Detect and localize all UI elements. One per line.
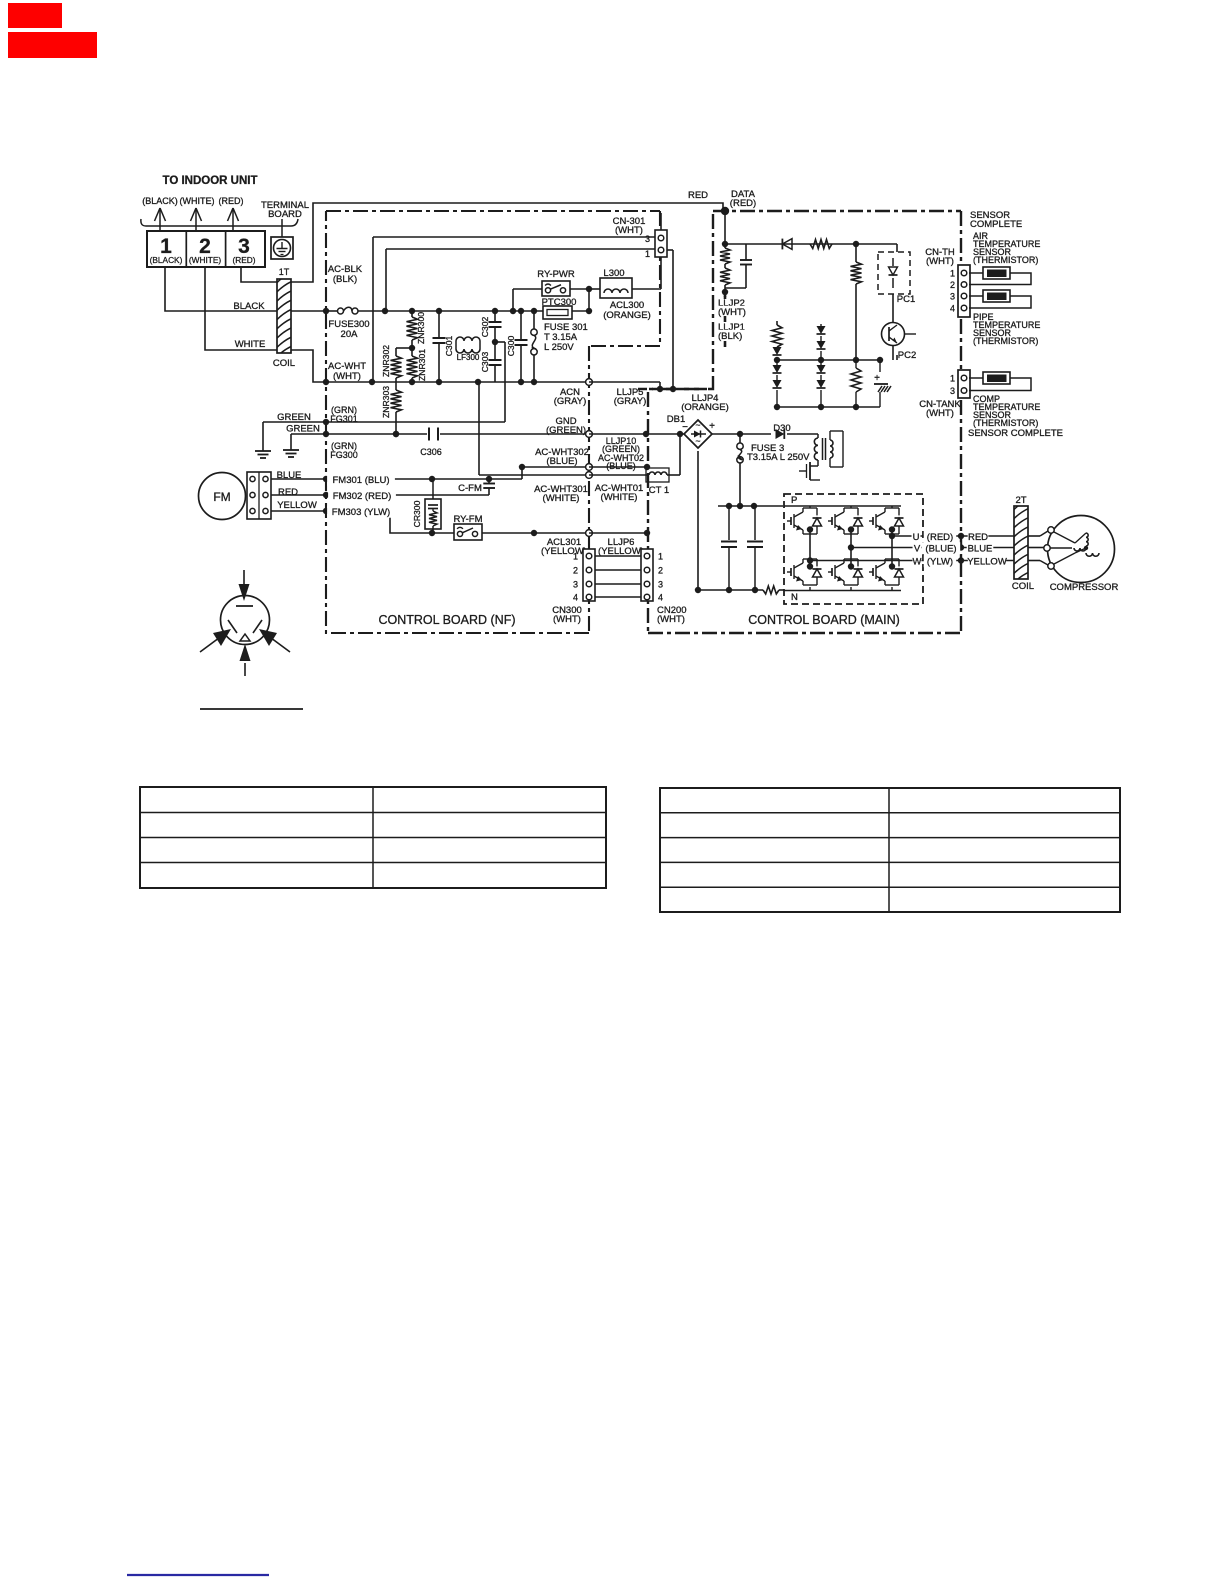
svg-text:ZNR303: ZNR303 bbox=[381, 386, 391, 418]
svg-text:1: 1 bbox=[950, 269, 955, 279]
svg-text:CT 1: CT 1 bbox=[649, 485, 669, 496]
svg-text:2: 2 bbox=[658, 566, 663, 576]
svg-text:3: 3 bbox=[950, 386, 955, 396]
svg-text:C303: C303 bbox=[480, 352, 490, 373]
svg-text:U: U bbox=[913, 532, 920, 543]
svg-text:1: 1 bbox=[573, 552, 578, 562]
svg-text:GREEN: GREEN bbox=[286, 424, 320, 435]
svg-text:3: 3 bbox=[658, 580, 663, 590]
svg-text:(RED): (RED) bbox=[730, 198, 756, 209]
svg-text:CONTROL BOARD (MAIN): CONTROL BOARD (MAIN) bbox=[748, 613, 900, 627]
svg-text:COMPRESSOR: COMPRESSOR bbox=[1050, 582, 1119, 593]
svg-text:TO INDOOR UNIT: TO INDOOR UNIT bbox=[163, 175, 258, 187]
svg-text:FM303 (YLW): FM303 (YLW) bbox=[332, 507, 390, 518]
svg-text:~: ~ bbox=[696, 436, 701, 446]
svg-text:FG301: FG301 bbox=[330, 414, 358, 424]
svg-text:(BLUE): (BLUE) bbox=[546, 456, 577, 467]
svg-text:4: 4 bbox=[573, 593, 578, 603]
svg-text:RY-PWR: RY-PWR bbox=[537, 269, 575, 280]
svg-text:COIL: COIL bbox=[273, 358, 295, 369]
svg-text:(GRAY): (GRAY) bbox=[554, 396, 587, 407]
svg-text:CR300: CR300 bbox=[412, 500, 422, 527]
svg-text:FM302 (RED): FM302 (RED) bbox=[333, 491, 392, 502]
svg-text:(ORANGE): (ORANGE) bbox=[681, 402, 729, 413]
svg-text:(WHT): (WHT) bbox=[718, 307, 746, 318]
svg-text:(BLUE): (BLUE) bbox=[606, 461, 636, 471]
svg-text:PC1: PC1 bbox=[897, 294, 915, 305]
svg-text:4: 4 bbox=[950, 304, 955, 314]
svg-text:1: 1 bbox=[950, 374, 955, 384]
svg-text:(BLACK): (BLACK) bbox=[142, 196, 178, 206]
svg-text:C-FM: C-FM bbox=[458, 483, 482, 494]
svg-text:(WHT): (WHT) bbox=[657, 614, 685, 625]
svg-text:(BLK): (BLK) bbox=[718, 331, 742, 342]
svg-text:YELLOW: YELLOW bbox=[967, 557, 1007, 568]
svg-text:C302: C302 bbox=[480, 317, 490, 338]
svg-text:(BLUE): (BLUE) bbox=[925, 544, 956, 555]
svg-text:RED: RED bbox=[688, 190, 708, 201]
svg-text:RED: RED bbox=[278, 487, 298, 498]
svg-text:LF300: LF300 bbox=[457, 353, 480, 362]
svg-text:(YELLOW): (YELLOW) bbox=[541, 546, 587, 557]
svg-text:CONTROL BOARD (NF): CONTROL BOARD (NF) bbox=[378, 613, 515, 627]
svg-text:FM301 (BLU): FM301 (BLU) bbox=[332, 475, 389, 486]
svg-text:(GREEN): (GREEN) bbox=[546, 425, 586, 436]
svg-text:BLACK: BLACK bbox=[233, 301, 265, 312]
svg-text:(WHITE): (WHITE) bbox=[189, 255, 221, 265]
svg-text:ZNR301: ZNR301 bbox=[417, 349, 427, 381]
svg-text:+: + bbox=[709, 421, 715, 432]
svg-text:SENSOR COMPLETE: SENSOR COMPLETE bbox=[968, 428, 1063, 439]
svg-text:FG300: FG300 bbox=[330, 450, 358, 460]
svg-text:(YLW): (YLW) bbox=[927, 557, 953, 568]
svg-text:P: P bbox=[791, 495, 797, 506]
svg-text:(RED): (RED) bbox=[232, 255, 255, 265]
svg-text:(WHITE): (WHITE) bbox=[601, 492, 638, 503]
svg-text:2T: 2T bbox=[1015, 495, 1026, 506]
svg-text:1: 1 bbox=[645, 249, 650, 259]
svg-text:(BLK): (BLK) bbox=[333, 274, 357, 285]
svg-text:RED: RED bbox=[968, 532, 988, 543]
svg-text:(WHT): (WHT) bbox=[615, 225, 643, 236]
svg-text:BLUE: BLUE bbox=[968, 544, 993, 555]
svg-text:1T: 1T bbox=[279, 267, 290, 277]
svg-text:N: N bbox=[791, 592, 798, 603]
svg-text:(THERMISTOR): (THERMISTOR) bbox=[973, 255, 1038, 265]
svg-text:W: W bbox=[913, 557, 922, 568]
svg-text:(GRAY): (GRAY) bbox=[614, 396, 647, 407]
svg-text:3: 3 bbox=[645, 234, 650, 244]
svg-text:YELLOW: YELLOW bbox=[277, 500, 317, 511]
svg-text:COMPLETE: COMPLETE bbox=[970, 219, 1022, 230]
svg-text:ZNR302: ZNR302 bbox=[381, 345, 391, 377]
svg-text:(WHT): (WHT) bbox=[926, 408, 954, 419]
svg-text:(THERMISTOR): (THERMISTOR) bbox=[973, 418, 1038, 428]
svg-text:L 250V: L 250V bbox=[544, 342, 574, 353]
svg-text:3: 3 bbox=[573, 580, 578, 590]
svg-text:(WHT): (WHT) bbox=[553, 614, 581, 625]
svg-text:(THERMISTOR): (THERMISTOR) bbox=[973, 336, 1038, 346]
svg-text:2: 2 bbox=[950, 280, 955, 290]
svg-text:C306: C306 bbox=[420, 447, 442, 457]
svg-text:(BLACK): (BLACK) bbox=[150, 255, 183, 265]
svg-text:(WHITE): (WHITE) bbox=[543, 493, 580, 504]
svg-text:+: + bbox=[874, 373, 880, 384]
svg-text:(WHITE): (WHITE) bbox=[180, 196, 215, 206]
svg-text:C300: C300 bbox=[506, 336, 516, 357]
svg-text:T3.15A L 250V: T3.15A L 250V bbox=[747, 452, 810, 463]
svg-text:(ORANGE): (ORANGE) bbox=[603, 310, 651, 321]
svg-text:(RED): (RED) bbox=[927, 532, 953, 543]
svg-text:FM: FM bbox=[213, 490, 230, 504]
svg-text:PC2: PC2 bbox=[898, 350, 916, 361]
svg-text:C301: C301 bbox=[444, 336, 454, 357]
svg-text:V: V bbox=[914, 544, 921, 555]
svg-text:ZNR300: ZNR300 bbox=[416, 312, 426, 344]
svg-text:(RED): (RED) bbox=[219, 196, 244, 206]
svg-text:4: 4 bbox=[658, 593, 663, 603]
svg-text:3: 3 bbox=[950, 292, 955, 302]
svg-text:(WHT): (WHT) bbox=[333, 371, 361, 382]
svg-text:20A: 20A bbox=[341, 329, 359, 340]
svg-text:BOARD: BOARD bbox=[268, 209, 302, 220]
svg-text:~: ~ bbox=[696, 420, 701, 430]
svg-text:WHITE: WHITE bbox=[235, 339, 266, 350]
svg-text:1: 1 bbox=[658, 552, 663, 562]
svg-text:(WHT): (WHT) bbox=[926, 256, 954, 267]
svg-text:COIL: COIL bbox=[1012, 581, 1034, 592]
svg-text:2: 2 bbox=[573, 566, 578, 576]
